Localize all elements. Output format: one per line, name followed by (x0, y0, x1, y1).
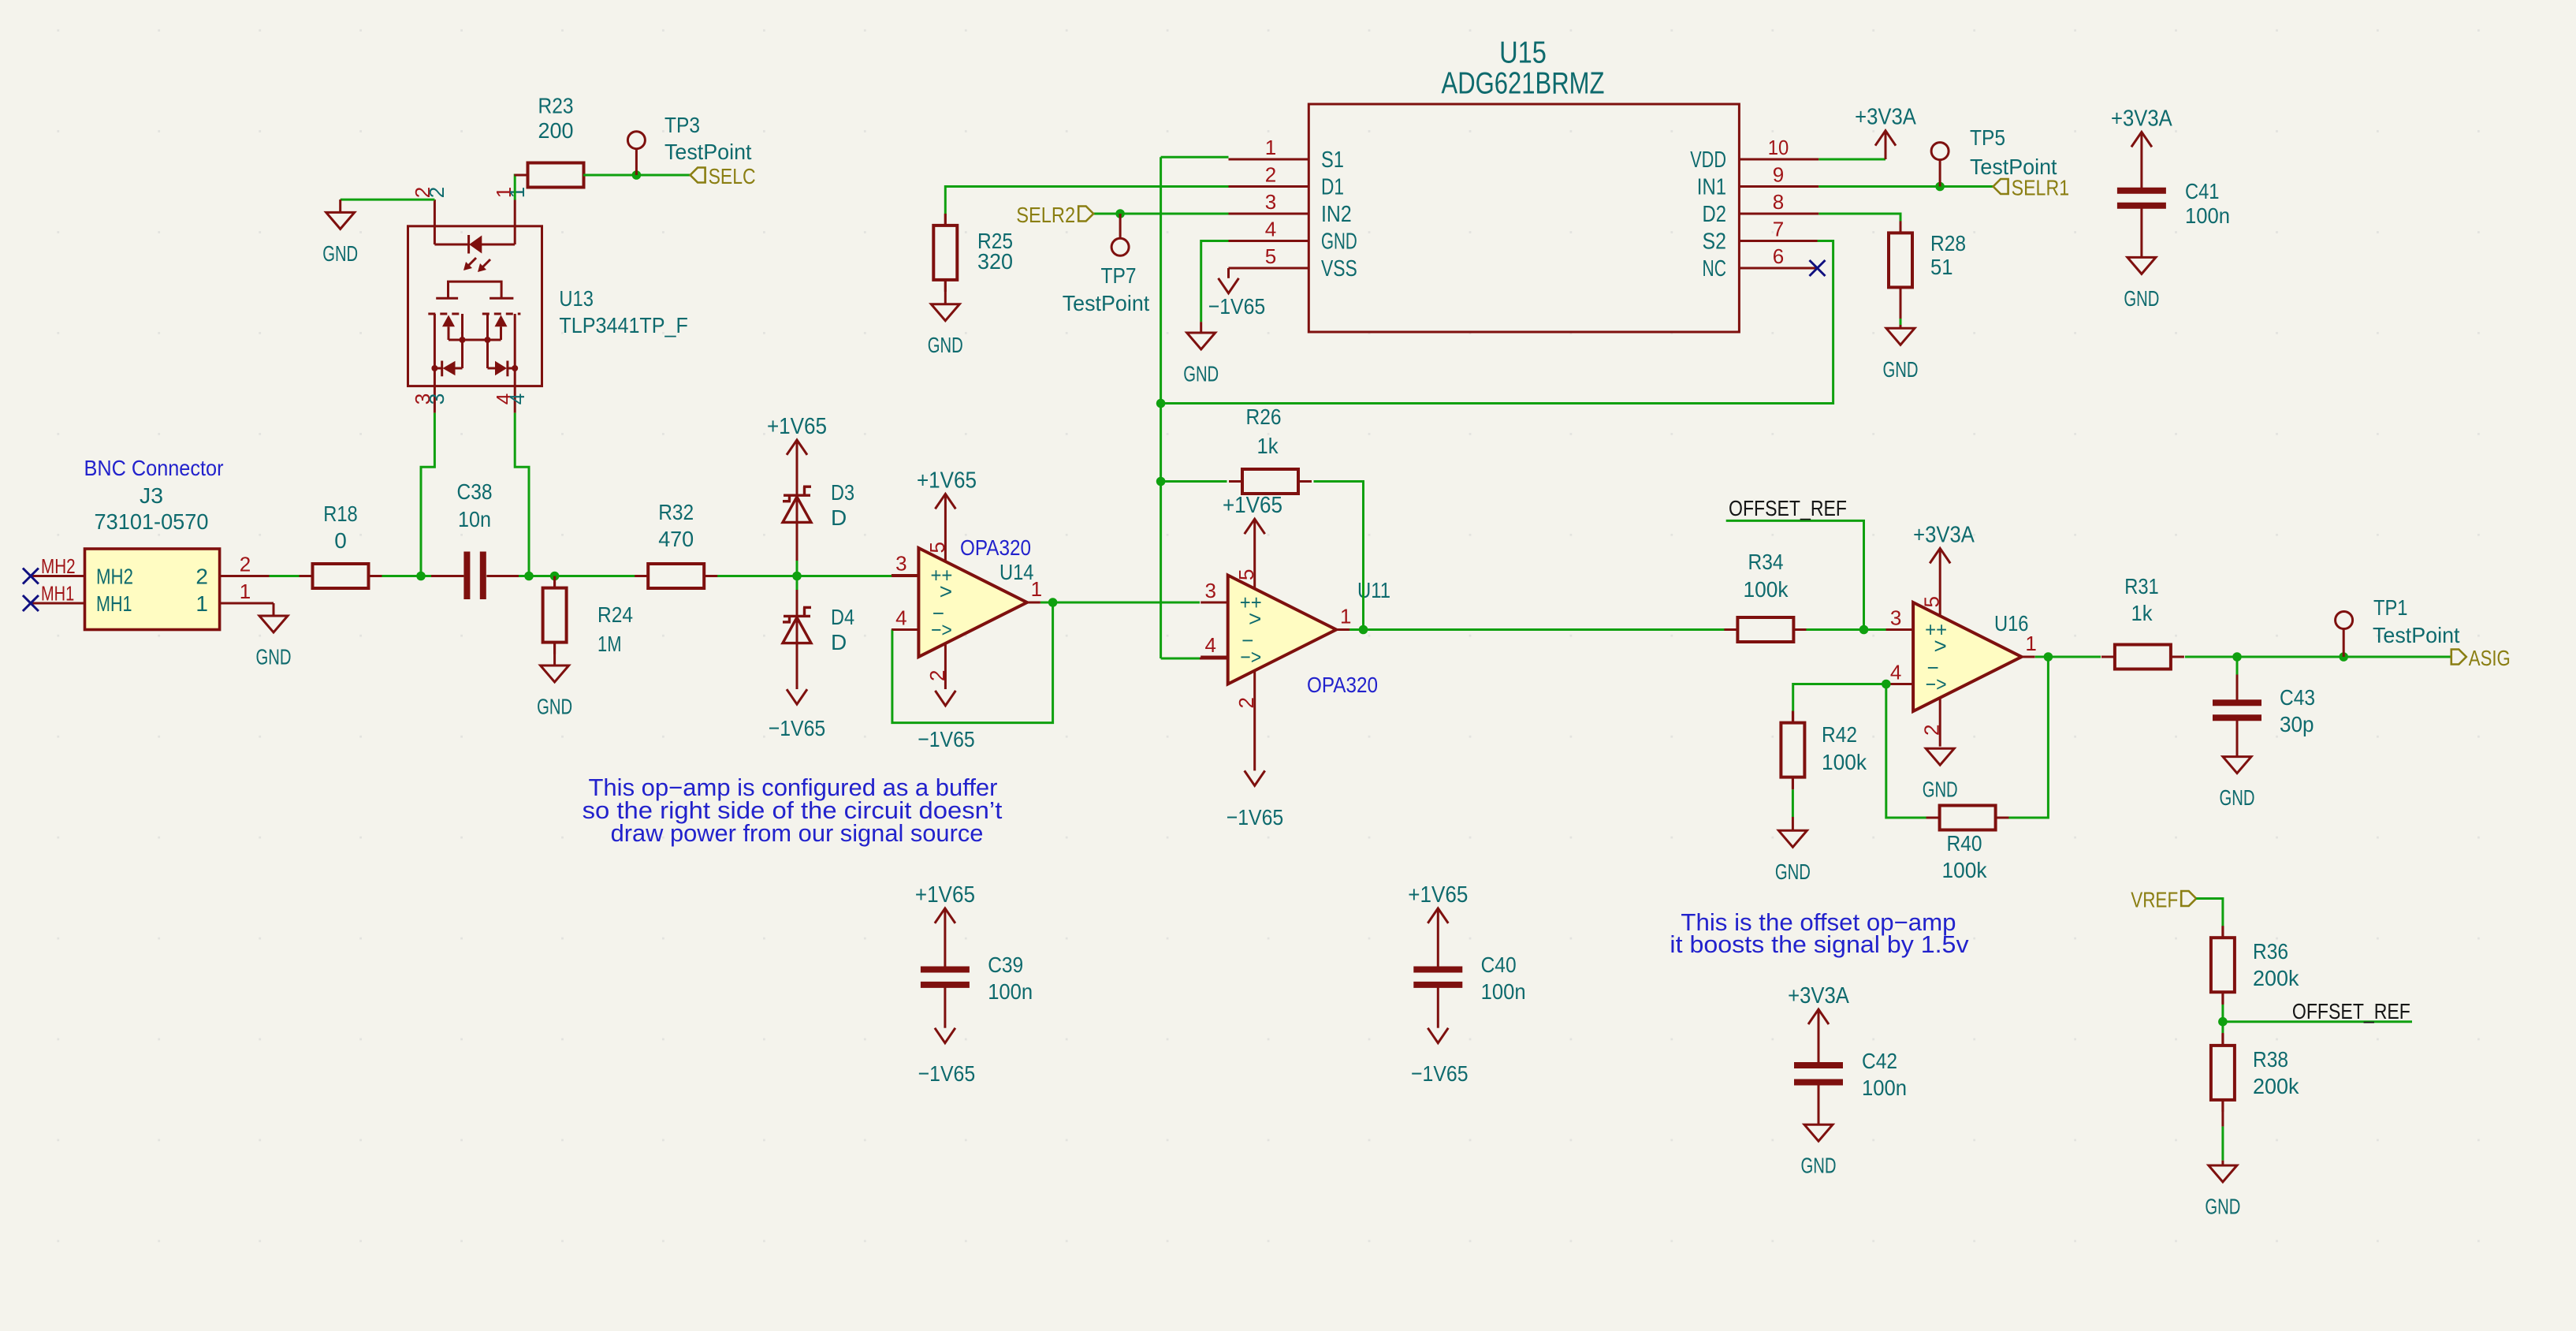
svg-text:U15: U15 (1499, 36, 1547, 70)
svg-text:D4: D4 (831, 605, 854, 629)
svg-text:−>: −> (1926, 673, 1947, 696)
svg-text:1: 1 (505, 187, 529, 198)
svg-text:D1: D1 (1321, 175, 1344, 200)
svg-text:51: 51 (1930, 255, 1953, 279)
svg-text:5: 5 (1265, 244, 1276, 268)
svg-text:VDD: VDD (1690, 147, 1726, 173)
svg-text:4: 4 (895, 606, 906, 630)
svg-text:+1V65: +1V65 (1223, 493, 1282, 518)
svg-text:>: > (1249, 606, 1261, 631)
svg-text:IN1: IN1 (1697, 175, 1726, 200)
svg-text:4: 4 (1890, 661, 1901, 684)
svg-text:TP1: TP1 (2373, 595, 2408, 620)
svg-text:C43: C43 (2280, 685, 2315, 710)
svg-text:R40: R40 (1947, 831, 1982, 856)
svg-text:R26: R26 (1246, 405, 1282, 429)
svg-text:R24: R24 (597, 602, 633, 627)
svg-text:1: 1 (195, 591, 208, 616)
svg-text:GND: GND (1801, 1154, 1837, 1178)
svg-text:R32: R32 (658, 500, 694, 524)
svg-text:OPA320: OPA320 (960, 535, 1031, 560)
svg-text:200k: 200k (2253, 1074, 2299, 1098)
svg-text:1: 1 (240, 580, 251, 603)
svg-text:+3V3A: +3V3A (1913, 522, 1975, 547)
svg-text:R38: R38 (2253, 1047, 2288, 1072)
svg-text:TestPoint: TestPoint (2373, 623, 2460, 647)
svg-text:SELR2: SELR2 (1016, 203, 1075, 227)
svg-text:4: 4 (1265, 218, 1276, 241)
svg-text:MH1: MH1 (96, 591, 132, 616)
svg-text:VREF: VREF (2131, 888, 2178, 912)
svg-text:D: D (831, 630, 847, 654)
svg-text:3: 3 (1204, 579, 1215, 602)
svg-text:1k: 1k (2131, 601, 2153, 625)
svg-text:R23: R23 (538, 94, 574, 118)
svg-text:GND: GND (1883, 357, 1919, 382)
svg-text:S2: S2 (1703, 229, 1727, 255)
svg-text:−1V65: −1V65 (1208, 294, 1266, 319)
svg-text:100k: 100k (1744, 577, 1789, 602)
svg-text:0: 0 (334, 528, 347, 553)
svg-text:3: 3 (895, 552, 906, 576)
svg-text:TP3: TP3 (664, 113, 700, 137)
svg-text:10: 10 (1768, 136, 1789, 159)
svg-text:ASIG: ASIG (2469, 646, 2511, 670)
svg-text:100k: 100k (1942, 858, 1988, 882)
svg-text:S1: S1 (1321, 147, 1344, 173)
svg-text:C39: C39 (988, 953, 1023, 977)
svg-text:200k: 200k (2253, 966, 2299, 990)
svg-text:30p: 30p (2280, 712, 2314, 736)
svg-text:R34: R34 (1748, 550, 1784, 574)
svg-text:2: 2 (195, 565, 208, 589)
svg-text:7: 7 (1773, 218, 1784, 241)
svg-text:MH1: MH1 (41, 582, 74, 606)
svg-text:D2: D2 (1703, 202, 1727, 227)
svg-text:2: 2 (240, 553, 251, 576)
svg-text:320: 320 (977, 249, 1013, 274)
svg-text:GND: GND (537, 695, 572, 719)
svg-text:TP7: TP7 (1101, 263, 1137, 288)
svg-text:−1V65: −1V65 (1227, 805, 1284, 830)
svg-text:SELR1: SELR1 (2012, 176, 2070, 200)
svg-text:TP5: TP5 (1970, 125, 2005, 150)
svg-text:TLP3441TP_F: TLP3441TP_F (559, 313, 688, 337)
svg-text:−>: −> (1240, 645, 1261, 669)
svg-text:ADG621BRMZ: ADG621BRMZ (1442, 67, 1605, 101)
svg-text:NC: NC (1703, 256, 1727, 281)
svg-text:GND: GND (1183, 362, 1219, 386)
svg-text:GND: GND (2205, 1195, 2240, 1219)
svg-text:OPA320: OPA320 (1307, 673, 1378, 697)
svg-text:4: 4 (1204, 633, 1215, 657)
svg-text:C42: C42 (1862, 1049, 1897, 1073)
svg-text:R31: R31 (2124, 574, 2159, 598)
svg-text:GND: GND (2220, 785, 2255, 810)
svg-text:GND: GND (256, 645, 292, 669)
svg-text:>: > (940, 580, 952, 604)
svg-text:+3V3A: +3V3A (1855, 105, 1916, 130)
svg-text:100n: 100n (988, 979, 1033, 1004)
svg-text:VSS: VSS (1321, 256, 1357, 281)
svg-text:1k: 1k (1257, 434, 1279, 458)
svg-text:100k: 100k (1822, 750, 1867, 774)
svg-text:3: 3 (1890, 606, 1901, 630)
svg-text:MH2: MH2 (41, 554, 76, 578)
svg-text:100n: 100n (2185, 203, 2230, 228)
svg-text:3: 3 (425, 393, 449, 405)
svg-text:470: 470 (658, 527, 694, 551)
svg-text:1M: 1M (597, 632, 622, 656)
svg-text:GND: GND (1775, 859, 1811, 884)
svg-text:C41: C41 (2185, 179, 2220, 203)
svg-text:10n: 10n (458, 507, 491, 531)
svg-text:−1V65: −1V65 (1411, 1061, 1469, 1086)
svg-text:4: 4 (505, 393, 529, 405)
svg-text:GND: GND (2124, 286, 2159, 311)
svg-text:BNC Connector: BNC Connector (84, 456, 224, 480)
svg-text:MH2: MH2 (96, 565, 133, 589)
svg-text:−1V65: −1V65 (769, 716, 826, 740)
svg-text:SELC: SELC (709, 164, 756, 188)
svg-text:R42: R42 (1822, 722, 1857, 747)
svg-text:IN2: IN2 (1321, 202, 1352, 227)
svg-text:+1V65: +1V65 (917, 468, 977, 493)
svg-text:2: 2 (1265, 163, 1276, 187)
svg-text:OFFSET_REF: OFFSET_REF (1729, 496, 1847, 520)
svg-text:9: 9 (1773, 163, 1784, 187)
svg-text:R36: R36 (2253, 939, 2288, 964)
svg-text:C38: C38 (457, 479, 493, 504)
svg-text:1: 1 (1340, 605, 1351, 628)
svg-text:−1V65: −1V65 (918, 727, 975, 751)
svg-text:U16: U16 (1994, 611, 2029, 636)
svg-text:OFFSET_REF: OFFSET_REF (2292, 999, 2410, 1023)
svg-text:TestPoint: TestPoint (1063, 291, 1150, 315)
svg-text:+1V65: +1V65 (1408, 882, 1468, 908)
svg-text:GND: GND (928, 333, 963, 357)
svg-text:+1V65: +1V65 (767, 414, 827, 439)
svg-text:U13: U13 (559, 286, 594, 311)
svg-text:1: 1 (1265, 136, 1276, 159)
svg-text:200: 200 (538, 118, 574, 143)
svg-text:2: 2 (425, 187, 449, 198)
svg-text:R18: R18 (323, 501, 358, 526)
svg-text:it boosts the signal by 1.5v: it boosts the signal by 1.5v (1670, 931, 1969, 958)
svg-text:C40: C40 (1481, 953, 1517, 977)
svg-text:U14: U14 (1000, 560, 1034, 584)
svg-text:100n: 100n (1481, 979, 1526, 1004)
svg-text:D3: D3 (831, 480, 854, 505)
svg-text:+3V3A: +3V3A (2111, 106, 2172, 131)
svg-text:+3V3A: +3V3A (1788, 983, 1849, 1009)
svg-text:R28: R28 (1930, 231, 1966, 255)
svg-text:8: 8 (1773, 190, 1784, 214)
svg-text:−1V65: −1V65 (918, 1061, 976, 1086)
svg-text:>: > (1934, 634, 1946, 658)
svg-text:3: 3 (1265, 190, 1276, 214)
svg-text:6: 6 (1773, 244, 1784, 268)
svg-text:+1V65: +1V65 (915, 882, 975, 908)
svg-text:GND: GND (322, 241, 358, 266)
svg-text:GND: GND (1923, 777, 1958, 802)
svg-text:draw power from our signal sou: draw power from our signal source (611, 820, 984, 847)
svg-text:73101-0570: 73101-0570 (95, 509, 209, 534)
svg-text:GND: GND (1321, 229, 1357, 255)
svg-text:TestPoint: TestPoint (664, 140, 752, 164)
svg-text:100n: 100n (1862, 1076, 1907, 1100)
svg-text:J3: J3 (140, 483, 163, 508)
svg-text:D: D (831, 505, 847, 530)
svg-text:−>: −> (931, 618, 952, 642)
